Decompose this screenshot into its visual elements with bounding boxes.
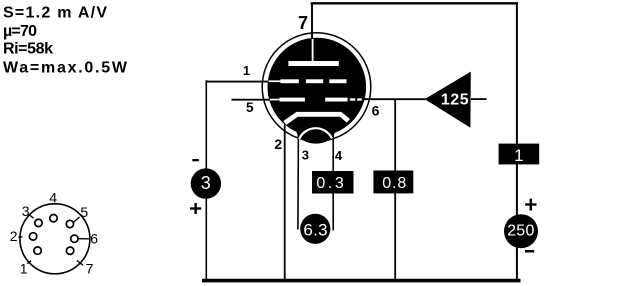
wire pin2 to bus — [284, 121, 286, 281]
svg-text:Wa=max.0.5W: Wa=max.0.5W — [3, 59, 128, 76]
svg-text:Ri=58k: Ri=58k — [3, 41, 53, 58]
svg-text:3: 3 — [302, 147, 309, 162]
plus terminal of 3V battery — [190, 203, 201, 214]
svg-text:6: 6 — [372, 103, 380, 119]
minus terminal of 3V battery — [192, 159, 199, 161]
socket hole pin 3 — [35, 219, 42, 226]
svg-text:1: 1 — [20, 261, 28, 277]
svg-text:6.3: 6.3 — [303, 220, 328, 239]
wire top rail pin7 to right rail — [311, 3, 518, 40]
tube socket base diagram — [20, 204, 90, 274]
wire pin4 to 6.3 supply — [332, 135, 334, 231]
svg-text:3: 3 — [22, 203, 30, 219]
tube V1 envelope — [262, 33, 371, 144]
battery 3V grid bias — [191, 168, 221, 198]
socket hole pin 5 — [66, 220, 73, 227]
socket hole pin 6 — [71, 235, 78, 242]
svg-text:7: 7 — [86, 261, 94, 277]
socket label 2 — [10, 228, 23, 244]
svg-text:250: 250 — [507, 223, 535, 240]
svg-text:0.3: 0.3 — [316, 175, 346, 192]
HT supply 250V — [504, 214, 538, 248]
plus terminal of 250V supply — [525, 199, 536, 211]
svg-text:µ=70: µ=70 — [3, 23, 37, 40]
grid g3 row — [269, 79, 347, 83]
svg-text:S=1.2 m A/V: S=1.2 m A/V — [3, 5, 107, 22]
svg-text:125: 125 — [441, 92, 469, 109]
wire stub after speaker — [471, 98, 487, 100]
speaker transformer 125 — [425, 72, 471, 128]
svg-text:4: 4 — [335, 148, 343, 163]
socket label 6 — [79, 231, 99, 247]
wire bottom bus — [202, 279, 521, 283]
svg-text:0.8: 0.8 — [382, 175, 407, 192]
current label box 0.8 — [373, 171, 413, 194]
socket label 5 — [74, 204, 89, 222]
svg-text:6: 6 — [90, 231, 98, 247]
cathode — [285, 114, 349, 123]
minus terminal of 250V supply — [525, 250, 534, 253]
svg-text:2: 2 — [10, 228, 18, 244]
svg-text:1: 1 — [243, 63, 250, 78]
socket label 3 — [22, 203, 34, 219]
socket hole pin 1 — [34, 247, 41, 254]
socket hole pin 7 — [66, 247, 73, 254]
svg-text:3: 3 — [201, 173, 211, 193]
grid g1 g2 row — [270, 98, 362, 102]
socket label 7 — [77, 261, 94, 277]
svg-text:2: 2 — [274, 136, 282, 152]
svg-text:1: 1 — [514, 146, 523, 165]
wire 0.8 branch to bus — [394, 99, 396, 281]
socket hole pin 4 — [50, 215, 57, 222]
svg-text:5: 5 — [80, 204, 88, 220]
wire left rail — [205, 80, 207, 281]
socket hole pin 2 — [29, 233, 36, 240]
svg-text:7: 7 — [298, 13, 308, 33]
heater filament arc — [299, 128, 332, 139]
heater supply 6.3V — [300, 214, 330, 244]
svg-text:4: 4 — [49, 189, 57, 205]
wire pin1 to left rail — [206, 81, 270, 83]
svg-text:5: 5 — [246, 100, 254, 115]
socket label 1 — [20, 261, 31, 277]
wire right rail — [516, 3, 518, 281]
wire pin3 to 6.3 supply — [297, 135, 300, 230]
wire pin6 to speaker — [363, 98, 426, 100]
wire pin5 stub — [232, 99, 272, 101]
anode current box 1 — [499, 144, 540, 165]
current label box 0.3 — [312, 171, 354, 194]
anode plate and pin7 lead — [288, 39, 338, 66]
